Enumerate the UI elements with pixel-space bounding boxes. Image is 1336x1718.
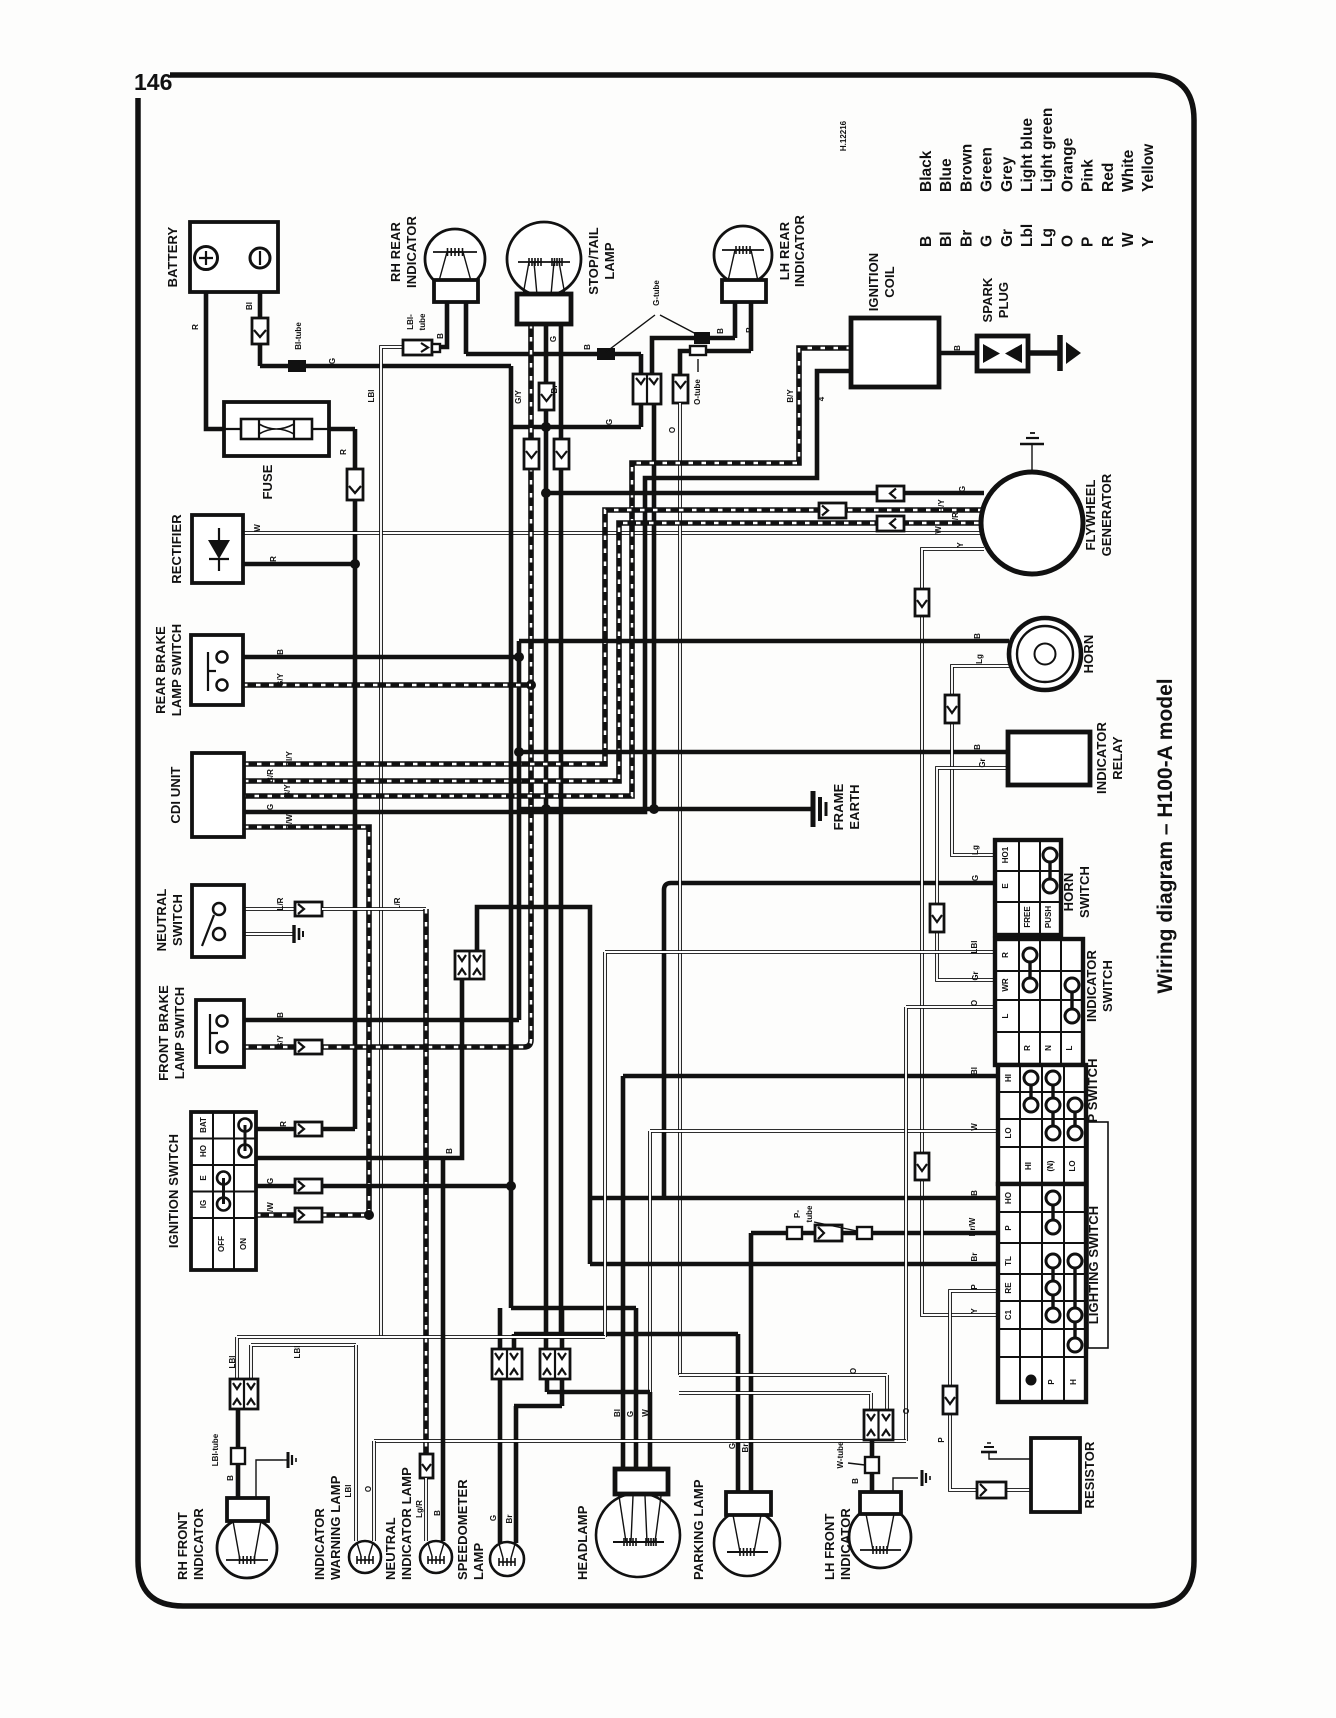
LBl-tube connector RH rear bbox=[403, 340, 440, 355]
wire G headlamp feed bbox=[500, 1308, 636, 1469]
svg-text:O: O bbox=[902, 1408, 911, 1414]
neutral switch earth bbox=[225, 925, 303, 943]
wire Br lighting switch TL and parking lamp bbox=[590, 1198, 998, 1264]
svg-text:G: G bbox=[489, 1515, 498, 1521]
wire LBl pair to RH front indicator bbox=[237, 1337, 605, 1379]
svg-text:RH REAR: RH REAR bbox=[388, 222, 403, 282]
svg-text:Bl: Bl bbox=[245, 302, 254, 310]
svg-text:R: R bbox=[1001, 952, 1010, 958]
wire Br link conn B to speedometer bbox=[514, 1379, 562, 1406]
svg-text:O: O bbox=[970, 1000, 979, 1006]
svg-text:Brown: Brown bbox=[958, 144, 975, 192]
svg-text:Lg: Lg bbox=[971, 845, 980, 855]
svg-text:Green: Green bbox=[979, 147, 996, 192]
wire G dual connector down to frame earth bbox=[652, 404, 657, 809]
wire R fuse to ignition switch vertical bbox=[329, 429, 355, 1129]
horn switch bbox=[995, 840, 1061, 935]
svg-text:O: O bbox=[364, 1486, 373, 1492]
wire G stop-tail lamp long vertical bbox=[541, 324, 551, 1349]
svg-text:B: B bbox=[445, 1148, 454, 1154]
svg-text:OFF: OFF bbox=[217, 1236, 226, 1252]
connector on P to resistor bbox=[977, 1482, 1006, 1498]
svg-text:Br: Br bbox=[970, 1253, 979, 1262]
svg-text:R: R bbox=[279, 1121, 288, 1127]
svg-text:IGNITION SWITCH: IGNITION SWITCH bbox=[166, 1134, 181, 1248]
fuse bbox=[224, 402, 329, 456]
wire G/Y stop-tail lamp to front brake switch bbox=[322, 324, 536, 1047]
svg-text:SWITCH: SWITCH bbox=[170, 894, 185, 946]
RH rear indicator lamp bbox=[425, 229, 485, 302]
svg-text:G: G bbox=[266, 804, 275, 810]
svg-text:H.12216: H.12216 bbox=[839, 120, 848, 151]
svg-text:HI: HI bbox=[1004, 1074, 1013, 1082]
svg-text:LBl: LBl bbox=[970, 941, 979, 954]
svg-text:G/Y: G/Y bbox=[276, 1034, 285, 1048]
svg-text:LBl: LBl bbox=[293, 1346, 302, 1359]
svg-text:O: O bbox=[1059, 235, 1076, 247]
page number 146 bbox=[134, 69, 172, 95]
dual bullet connector speedometer bbox=[492, 1349, 522, 1379]
page border frame bbox=[138, 75, 1194, 1606]
svg-text:B/Y: B/Y bbox=[786, 389, 795, 403]
svg-text:Black: Black bbox=[918, 150, 935, 192]
wire B/R CDI to flywheel B/R bbox=[244, 523, 984, 781]
wire B main vertical front brake to horn bbox=[514, 641, 524, 1020]
svg-text:RESISTOR: RESISTOR bbox=[1082, 1441, 1097, 1509]
svg-text:B: B bbox=[436, 333, 445, 339]
flywheel earth bbox=[1020, 433, 1044, 473]
wire G battery to frame with Bl-tube sleeve bbox=[260, 360, 511, 372]
parking lamp bbox=[714, 1492, 780, 1576]
svg-text:NEUTRAL: NEUTRAL bbox=[154, 889, 169, 952]
svg-text:R: R bbox=[191, 324, 200, 330]
svg-text:W: W bbox=[934, 526, 943, 534]
spark plug earth bbox=[1028, 335, 1081, 371]
svg-text:B: B bbox=[851, 1478, 860, 1484]
svg-text:Br: Br bbox=[550, 385, 559, 394]
dual bullet connector tail B wires bbox=[633, 374, 661, 404]
title: Wiring diagram H100-A model bbox=[1154, 678, 1177, 993]
svg-text:INDICATOR: INDICATOR bbox=[838, 1508, 853, 1580]
svg-text:Lbl: Lbl bbox=[1019, 224, 1036, 247]
wire O vertical down from O-tube bbox=[678, 403, 682, 1375]
svg-text:PARKING LAMP: PARKING LAMP bbox=[691, 1479, 706, 1580]
svg-text:P: P bbox=[1047, 1379, 1056, 1385]
wire B/W CDI to ignition switch and lighting switch bbox=[244, 827, 374, 1220]
wire B ignition switch to dual connector bbox=[256, 979, 462, 1158]
svg-text:G: G bbox=[979, 235, 996, 247]
svg-text:LIGHTING SWITCH: LIGHTING SWITCH bbox=[1086, 1206, 1101, 1325]
svg-text:G: G bbox=[549, 336, 558, 342]
frame earth label bbox=[831, 783, 862, 830]
svg-text:Gr: Gr bbox=[971, 971, 980, 980]
svg-text:W: W bbox=[970, 1123, 979, 1131]
svg-text:R: R bbox=[339, 449, 348, 455]
svg-text:Bl: Bl bbox=[970, 1067, 979, 1075]
headlamp bbox=[596, 1469, 680, 1577]
svg-text:Wiring diagram – H100-A model: Wiring diagram – H100-A model bbox=[1154, 678, 1177, 993]
wire O LH rear indicator right pin with O-tube sleeve bbox=[680, 302, 751, 375]
svg-text:G/Y: G/Y bbox=[276, 672, 285, 686]
svg-text:Bl-tube: Bl-tube bbox=[294, 322, 303, 350]
dual bullet connector headlamp feed bbox=[540, 1349, 570, 1379]
lighting switch label box bbox=[1088, 1122, 1108, 1348]
svg-text:Lg: Lg bbox=[1039, 228, 1056, 247]
svg-text:B: B bbox=[276, 649, 285, 655]
connector on Y vertical lower bbox=[915, 1153, 929, 1180]
LH front indicator earth bbox=[893, 1470, 930, 1492]
wire G ignition switch bbox=[256, 1179, 511, 1193]
wire G speedometer lamp bbox=[498, 1379, 503, 1543]
connector on Br vertical bbox=[554, 439, 569, 469]
svg-text:CDI UNIT: CDI UNIT bbox=[168, 766, 183, 823]
resistor bbox=[1031, 1438, 1080, 1512]
connectors on flywheel leads bbox=[877, 486, 904, 501]
dual bullet connector LH front indicator bbox=[864, 1410, 893, 1440]
svg-text:P: P bbox=[1080, 237, 1097, 247]
svg-text:L: L bbox=[1065, 1045, 1074, 1050]
svg-text:BATTERY: BATTERY bbox=[165, 226, 180, 287]
svg-text:White: White bbox=[1120, 149, 1137, 192]
svg-text:R: R bbox=[269, 556, 278, 562]
svg-text:B/R: B/R bbox=[951, 512, 960, 526]
svg-text:Gr: Gr bbox=[978, 758, 987, 767]
svg-text:RELAY: RELAY bbox=[1110, 736, 1125, 780]
wire Br stop-tail lamp long vertical bbox=[559, 324, 564, 1332]
wire nest link conn B top bbox=[560, 1308, 565, 1349]
wire O to indicator switch L bbox=[906, 1007, 995, 1441]
dual bullet connector ignition B feed bbox=[455, 951, 484, 979]
connector on P vertical bbox=[943, 1386, 957, 1414]
svg-text:Yellow: Yellow bbox=[1140, 143, 1157, 192]
svg-text:Br/W: Br/W bbox=[968, 1217, 977, 1236]
svg-text:RE: RE bbox=[1004, 1282, 1013, 1294]
wire G parking lamp feed bbox=[514, 1334, 738, 1492]
svg-text:REAR BRAKE: REAR BRAKE bbox=[153, 626, 168, 714]
svg-text:B: B bbox=[716, 328, 725, 334]
wire R rectifier to R vertical bbox=[243, 559, 360, 569]
front brake lamp switch bbox=[196, 1000, 244, 1067]
connector on G/Y vertical bbox=[524, 439, 539, 469]
connector on Gr vertical bbox=[930, 904, 944, 932]
RH front indicator earth bbox=[256, 1452, 296, 1498]
svg-text:LAMP SWITCH: LAMP SWITCH bbox=[169, 624, 184, 717]
wire Bl battery negative bbox=[258, 292, 263, 366]
wire W link conn B to headlamp bbox=[547, 1379, 650, 1392]
wire G frame earth run bbox=[519, 804, 813, 814]
rear brake lamp switch bbox=[191, 635, 243, 705]
svg-text:Pink: Pink bbox=[1080, 159, 1097, 192]
svg-text:TL: TL bbox=[1004, 1256, 1013, 1266]
svg-text:B/Y: B/Y bbox=[283, 784, 292, 798]
svg-text:PUSH: PUSH bbox=[1044, 906, 1053, 928]
svg-text:B: B bbox=[226, 1475, 235, 1481]
svg-text:HORN: HORN bbox=[1081, 635, 1096, 674]
svg-text:Br: Br bbox=[505, 1515, 514, 1524]
svg-text:Light green: Light green bbox=[1039, 108, 1056, 192]
wire R battery positive to fuse bbox=[206, 292, 224, 429]
indicator relay bbox=[1008, 732, 1090, 785]
svg-text:FRAME: FRAME bbox=[831, 783, 846, 830]
svg-text:RH FRONT: RH FRONT bbox=[175, 1512, 190, 1580]
svg-text:Lg/R: Lg/R bbox=[415, 1500, 424, 1518]
svg-text:L/R: L/R bbox=[276, 897, 285, 910]
svg-text:B: B bbox=[583, 344, 592, 350]
svg-text:INDICATOR: INDICATOR bbox=[1084, 950, 1099, 1022]
svg-text:HORN: HORN bbox=[1061, 873, 1076, 912]
svg-text:LBl-tube: LBl-tube bbox=[211, 1433, 220, 1466]
rectifier bbox=[192, 515, 243, 583]
wire B LH rear indicator left pin y338 run bbox=[652, 302, 735, 375]
CDI unit bbox=[192, 753, 244, 837]
svg-text:Orange: Orange bbox=[1059, 137, 1076, 192]
svg-text:LAMP SWITCH: LAMP SWITCH bbox=[172, 987, 187, 1080]
wire P lighting switch RE to resistor bbox=[950, 1291, 1031, 1490]
svg-text:LBl: LBl bbox=[344, 1485, 353, 1498]
svg-text:LBl: LBl bbox=[367, 390, 376, 403]
svg-text:Br: Br bbox=[958, 230, 975, 247]
wire B LH front indicator with W-tube sleeve bbox=[865, 1440, 879, 1492]
connector on G vertical bbox=[539, 383, 554, 410]
RH front indicator lamp bbox=[217, 1498, 277, 1578]
wire B/W ignition switch connector bbox=[256, 1208, 322, 1222]
svg-text:B: B bbox=[918, 236, 935, 247]
indicator switch bbox=[995, 939, 1083, 1065]
svg-text:146: 146 bbox=[134, 69, 172, 95]
connector on Y vertical bbox=[915, 589, 929, 616]
ignition switch table bbox=[191, 1112, 256, 1270]
svg-text:Bl/Y: Bl/Y bbox=[285, 751, 294, 767]
svg-text:SWITCH: SWITCH bbox=[1100, 960, 1115, 1012]
connector on R vertical bbox=[347, 469, 363, 500]
svg-text:G: G bbox=[626, 1411, 635, 1417]
svg-text:LBl: LBl bbox=[228, 1356, 237, 1369]
svg-text:E: E bbox=[199, 1175, 208, 1181]
svg-text:Br: Br bbox=[741, 1444, 750, 1453]
wire Y flywheel to lighting switch C1 bbox=[922, 549, 998, 1315]
svg-text:Lg: Lg bbox=[975, 654, 984, 664]
LH rear indicator lamp bbox=[714, 226, 772, 302]
wire Lg/R striped vertical to lamp connector bbox=[322, 909, 426, 1454]
svg-text:RECTIFIER: RECTIFIER bbox=[169, 514, 184, 584]
svg-text:EARTH: EARTH bbox=[847, 784, 862, 829]
LH front indicator lamp bbox=[849, 1492, 911, 1568]
wire B RH front indicator with LBl-tube sleeve bbox=[231, 1409, 245, 1498]
svg-text:LH FRONT: LH FRONT bbox=[822, 1513, 837, 1580]
svg-text:LAMP: LAMP bbox=[471, 1543, 486, 1580]
neutral indicator lamp bbox=[420, 1541, 452, 1573]
svg-text:HO: HO bbox=[1004, 1192, 1013, 1204]
svg-text:(N): (N) bbox=[1046, 1160, 1055, 1171]
svg-text:GENERATOR: GENERATOR bbox=[1099, 473, 1114, 556]
svg-text:Bl: Bl bbox=[938, 232, 955, 248]
svg-text:B/W: B/W bbox=[285, 814, 294, 830]
wire Bl dip switch HI to headlamp bbox=[623, 1076, 998, 1469]
svg-text:N: N bbox=[1044, 1045, 1053, 1051]
svg-text:W-tube: W-tube bbox=[836, 1441, 845, 1468]
svg-text:WARNING LAMP: WARNING LAMP bbox=[328, 1475, 343, 1580]
ignition coil bbox=[851, 318, 939, 387]
resistor earth bbox=[981, 1443, 1031, 1459]
svg-text:G: G bbox=[605, 419, 614, 425]
svg-text:Gr: Gr bbox=[999, 229, 1016, 247]
wire 4 ignition coil to CDI G bbox=[244, 371, 851, 812]
svg-text:FLYWHEEL: FLYWHEEL bbox=[1083, 479, 1098, 550]
wire LBl indicator warning lamp bbox=[354, 1345, 358, 1541]
svg-text:Bl: Bl bbox=[613, 1409, 622, 1417]
svg-text:SWITCH: SWITCH bbox=[1077, 866, 1092, 918]
svg-text:G-tube: G-tube bbox=[652, 280, 661, 306]
connector on front brake G/Y bbox=[295, 1040, 322, 1054]
svg-text:G: G bbox=[328, 358, 337, 364]
wire B/W to lighting switch P row with P-tube sleeves bbox=[751, 1227, 998, 1492]
svg-text:G: G bbox=[728, 1443, 737, 1449]
svg-text:W: W bbox=[1120, 232, 1137, 247]
wire G/Y rear brake switch bbox=[243, 682, 531, 688]
svg-text:Blue: Blue bbox=[938, 158, 955, 192]
wire B horn feed bbox=[519, 639, 1009, 644]
svg-text:B/Y: B/Y bbox=[937, 499, 946, 513]
svg-text:E: E bbox=[1001, 883, 1010, 889]
wire G horn switch feed bbox=[664, 883, 995, 1198]
horn bbox=[1009, 618, 1081, 690]
wire B RH rear indicator right pin y354 run bbox=[466, 302, 641, 374]
svg-text:P-: P- bbox=[793, 1210, 802, 1218]
connector on battery negative bbox=[252, 318, 268, 344]
connector on Lg vertical bbox=[945, 695, 959, 723]
svg-text:INDICATOR LAMP: INDICATOR LAMP bbox=[399, 1467, 414, 1580]
svg-text:P: P bbox=[1004, 1225, 1013, 1231]
svg-text:G: G bbox=[971, 875, 980, 881]
wire LBl vertical run bbox=[381, 347, 403, 1337]
svg-text:Y: Y bbox=[956, 542, 965, 548]
svg-text:B/R: B/R bbox=[266, 769, 275, 783]
svg-text:LO: LO bbox=[1004, 1127, 1013, 1138]
svg-text:LO: LO bbox=[1068, 1160, 1077, 1171]
lighting switch bbox=[998, 1184, 1086, 1402]
svg-text:PLUG: PLUG bbox=[996, 282, 1011, 319]
svg-text:P: P bbox=[937, 1437, 946, 1443]
wire O bottom run bbox=[374, 1375, 906, 1441]
wire B indicator relay feed bbox=[514, 747, 1008, 757]
svg-text:P: P bbox=[970, 1284, 979, 1290]
svg-text:B: B bbox=[970, 1190, 979, 1196]
svg-text:G: G bbox=[266, 1178, 275, 1184]
svg-text:IGNITION: IGNITION bbox=[866, 253, 881, 312]
wire B coil to spark plug bbox=[939, 351, 977, 356]
wire LBl to indicator switch R bbox=[605, 952, 995, 1337]
svg-text:LAMP: LAMP bbox=[602, 242, 617, 279]
wire G main vertical from battery G line bbox=[506, 366, 516, 1308]
wire W dip switch LO to headlamp bbox=[650, 1131, 998, 1469]
svg-text:G/Y: G/Y bbox=[514, 389, 523, 403]
svg-text:L: L bbox=[1001, 1013, 1010, 1018]
svg-text:C1: C1 bbox=[1004, 1309, 1013, 1320]
figure number H.12216 bbox=[839, 120, 848, 151]
indicator warning lamp bbox=[349, 1541, 381, 1573]
connector on neutral switch lead bbox=[295, 902, 322, 916]
svg-text:FUSE: FUSE bbox=[260, 464, 275, 499]
svg-text:W: W bbox=[641, 1409, 650, 1417]
neutral switch bbox=[192, 885, 244, 957]
speedometer lamp bbox=[490, 1542, 524, 1576]
svg-text:HO: HO bbox=[199, 1145, 208, 1157]
wire B/Y ignition coil to CDI via trunk bbox=[244, 348, 851, 796]
svg-text:B: B bbox=[276, 1012, 285, 1018]
wire B neutral indicator lamp bbox=[441, 1158, 446, 1541]
wire Lg/R neutral switch to neutral indicator lamp bbox=[225, 907, 295, 911]
wire W rectifier to flywheel generator bbox=[243, 531, 984, 535]
svg-text:BAT: BAT bbox=[199, 1117, 208, 1133]
svg-text:Grey: Grey bbox=[999, 156, 1016, 192]
svg-text:LH REAR: LH REAR bbox=[777, 221, 792, 280]
wire B dual connector to lighting trunk bbox=[477, 907, 998, 1198]
svg-text:B: B bbox=[973, 744, 982, 750]
svg-text:LBl-: LBl- bbox=[406, 314, 415, 330]
wire Bl/Y CDI to flywheel B/Y bbox=[244, 510, 984, 764]
spark plug bbox=[977, 336, 1028, 371]
wire G flywheel to junction bbox=[546, 491, 984, 496]
svg-text:INDICATOR: INDICATOR bbox=[191, 1508, 206, 1580]
svg-text:tube: tube bbox=[805, 1205, 814, 1222]
svg-text:INDICATOR: INDICATOR bbox=[1094, 722, 1109, 794]
svg-text:HI: HI bbox=[1024, 1162, 1033, 1170]
svg-text:SPARK: SPARK bbox=[980, 277, 995, 323]
frame earth ground symbol bbox=[813, 791, 826, 827]
wire B RH rear indicator left pin bbox=[440, 302, 447, 347]
svg-text:INDICATOR: INDICATOR bbox=[404, 216, 419, 288]
svg-text:O: O bbox=[849, 1368, 858, 1374]
colour code legend bbox=[918, 108, 1157, 247]
svg-text:STOP/TAIL: STOP/TAIL bbox=[586, 227, 601, 295]
svg-text:ON: ON bbox=[239, 1238, 248, 1250]
wire Lg horn to horn switch bbox=[952, 666, 1012, 855]
svg-text:HEADLAMP: HEADLAMP bbox=[575, 1505, 590, 1580]
G-tube label with pointers bbox=[606, 280, 700, 352]
svg-text:NEUTRAL: NEUTRAL bbox=[383, 1517, 398, 1580]
battery bbox=[190, 222, 278, 292]
svg-text:INDICATOR: INDICATOR bbox=[312, 1508, 327, 1580]
svg-text:FREE: FREE bbox=[1023, 906, 1032, 928]
svg-text:Y: Y bbox=[1140, 236, 1157, 247]
svg-text:W: W bbox=[253, 524, 262, 532]
svg-text:4: 4 bbox=[817, 396, 826, 401]
svg-text:Red: Red bbox=[1100, 163, 1117, 192]
wire R ignition switch BAT bbox=[256, 1122, 355, 1136]
svg-text:SPEEDOMETER: SPEEDOMETER bbox=[455, 1479, 470, 1580]
svg-text:INDICATOR: INDICATOR bbox=[792, 215, 807, 287]
svg-text:B: B bbox=[433, 1510, 442, 1516]
svg-text:H: H bbox=[1069, 1379, 1078, 1385]
svg-text:COIL: COIL bbox=[882, 266, 897, 297]
svg-text:Y: Y bbox=[970, 1308, 979, 1314]
svg-text:HO1: HO1 bbox=[1001, 846, 1010, 863]
wire Lg/R neutral indicator lamp bbox=[420, 1454, 433, 1541]
dual bullet connector RH front indicator bbox=[230, 1379, 258, 1409]
svg-text:B: B bbox=[953, 345, 962, 351]
svg-text:Light blue: Light blue bbox=[1019, 118, 1036, 192]
wire Br speedometer lamp bbox=[514, 1406, 519, 1543]
wire B rear brake switch bbox=[243, 655, 519, 660]
wire B front brake switch bbox=[244, 1018, 519, 1023]
stop/tail lamp bbox=[507, 222, 581, 324]
svg-text:G: G bbox=[958, 486, 967, 492]
svg-text:FRONT BRAKE: FRONT BRAKE bbox=[156, 985, 171, 1081]
flywheel generator bbox=[981, 472, 1083, 574]
wire O indicator warning lamp bbox=[372, 1441, 376, 1541]
svg-text:tube: tube bbox=[418, 313, 427, 330]
connector on P-tube run bbox=[815, 1225, 842, 1241]
